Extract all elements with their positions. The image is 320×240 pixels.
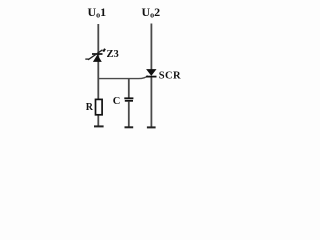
svg-text:SCR: SCR [159,71,181,82]
svg-text:Z3: Z3 [107,49,119,60]
svg-text:C: C [113,96,121,107]
svg-text:R: R [86,102,94,113]
